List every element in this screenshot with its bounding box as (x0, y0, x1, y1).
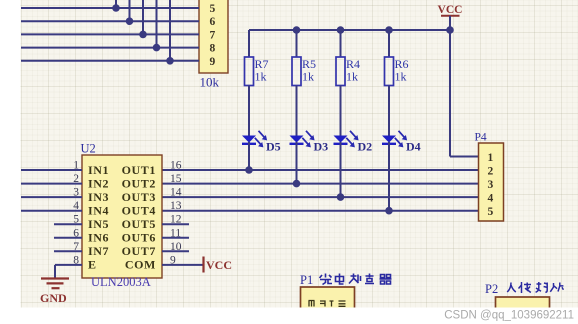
svg-text:OUT5: OUT5 (122, 217, 156, 231)
svg-text:1k: 1k (346, 70, 358, 84)
wire OUT1 to P4 pin2 (162, 169, 479, 171)
wire OUT2 to P4 pin3 (162, 183, 479, 185)
svg-text:1: 1 (488, 152, 494, 164)
junction bus-R4 (337, 26, 345, 34)
svg-text:13: 13 (170, 200, 182, 212)
svg-text:8: 8 (210, 43, 216, 55)
junction D2-OUT3 (337, 193, 345, 201)
svg-text:D2: D2 (358, 140, 373, 154)
svg-text:P1: P1 (300, 273, 313, 287)
svg-text:U2: U2 (81, 142, 96, 156)
svg-text:1k: 1k (395, 70, 407, 84)
wire U2 pin12 stub (162, 223, 189, 225)
svg-text:E: E (88, 258, 97, 272)
svg-text:OUT7: OUT7 (122, 244, 156, 258)
svg-text:OUT6: OUT6 (122, 231, 156, 245)
label P2 (485, 282, 498, 296)
svg-text:VCC: VCC (438, 4, 463, 16)
svg-text:COM: COM (125, 258, 156, 272)
bottom margin mask (0, 308, 578, 324)
label P4 (475, 132, 487, 144)
resistor R6 1k (385, 30, 409, 136)
svg-text:VCC: VCC (206, 258, 232, 272)
label P1 (300, 273, 313, 287)
svg-text:7: 7 (210, 29, 216, 41)
power VCC pin9 (204, 257, 233, 273)
svg-text:GND: GND (40, 291, 67, 305)
junction bus-R6 (385, 26, 393, 34)
left margin mask (0, 0, 21, 324)
watermark CSDN (444, 310, 574, 322)
connector P2 box (496, 297, 550, 311)
wire riser 1 (115, 0, 117, 8)
junction dot 2 (126, 17, 134, 25)
wire VCC bus (249, 29, 450, 31)
wire U2 pin10 stub (162, 250, 189, 252)
U2 pin names right (122, 163, 156, 272)
svg-text:IN4: IN4 (88, 204, 109, 218)
svg-text:IN6: IN6 (88, 231, 109, 245)
U2 pin numbers right (170, 160, 182, 267)
junction dot 5 (166, 57, 174, 65)
svg-text:OUT1: OUT1 (122, 163, 156, 177)
label 光电传感器 (320, 274, 392, 285)
svg-text:IN3: IN3 (88, 190, 109, 204)
svg-text:15: 15 (170, 173, 182, 185)
svg-text:IN5: IN5 (88, 217, 109, 231)
junction dot 1 (112, 4, 120, 12)
wire riser 3 (142, 0, 144, 34)
svg-text:3: 3 (488, 179, 494, 191)
U2 pin names left (88, 163, 109, 272)
svg-text:OUT2: OUT2 (122, 176, 156, 190)
U2 pin numbers left (73, 160, 79, 267)
svg-text:10k: 10k (200, 75, 220, 90)
resistor network RN1 (10k) (199, 0, 228, 73)
resistor R5 1k (292, 30, 316, 136)
wire RN pin5 (21, 7, 199, 9)
svg-text:CSDN @qq_1039692211: CSDN @qq_1039692211 (444, 310, 574, 322)
label ULN2003A (91, 275, 151, 289)
wire U2 pin1 (21, 169, 82, 171)
wire U2 pin2 (21, 183, 82, 185)
junction D4-OUT4 (385, 207, 393, 215)
junction D5-OUT1 (245, 166, 253, 174)
wire RN pin8 (21, 47, 199, 49)
label 人体红外 (507, 282, 563, 293)
connector P1 box (301, 287, 355, 311)
svg-text:D4: D4 (406, 140, 421, 154)
wire OUT3 to P4 pin4 (162, 196, 479, 198)
junction dot 3 (139, 31, 147, 39)
wire riser 4 (156, 0, 158, 48)
wire RN pin9 (21, 60, 199, 62)
resistor R4 1k (336, 30, 360, 136)
wire U2 pin8 (55, 265, 82, 279)
junction dot 4 (153, 44, 161, 52)
wire riser 5 (169, 0, 171, 61)
svg-text:4: 4 (488, 193, 494, 205)
op-amp U2 box (82, 155, 162, 278)
LED D3 (290, 131, 329, 184)
LED D2 (334, 131, 373, 197)
label 10k (200, 75, 220, 90)
svg-text:P4: P4 (475, 132, 487, 144)
wire U2 pin7 (54, 250, 82, 252)
svg-text:9: 9 (210, 56, 216, 68)
wire VCC to P4 pin1 (450, 30, 479, 157)
svg-text:ULN2003A: ULN2003A (91, 275, 151, 289)
svg-text:5: 5 (488, 206, 494, 218)
svg-text:16: 16 (170, 160, 182, 172)
label U2 (81, 142, 96, 156)
svg-text:D5: D5 (266, 140, 281, 154)
junction D3-OUT2 (293, 180, 301, 188)
svg-text:OUT3: OUT3 (122, 190, 156, 204)
svg-text:IN2: IN2 (88, 176, 109, 190)
resistor R7 1k (245, 30, 269, 136)
junction bus-R5 (293, 26, 301, 34)
wire RN pin7 (21, 33, 199, 35)
svg-text:IN7: IN7 (88, 244, 109, 258)
wire U2 pin9 (162, 264, 203, 266)
svg-text:OUT4: OUT4 (122, 204, 156, 218)
wire riser 2 (129, 0, 131, 21)
svg-text:D3: D3 (314, 140, 329, 154)
wire U2 pin3 (21, 196, 82, 198)
svg-text:2: 2 (488, 166, 494, 178)
wire U2 pin4 (21, 210, 82, 212)
power VCC top (438, 4, 463, 30)
svg-text:1k: 1k (255, 70, 267, 84)
wire U2 pin11 stub (162, 237, 189, 239)
svg-text:P2: P2 (485, 282, 498, 296)
wire U2 pin5 (54, 223, 82, 225)
svg-text:5: 5 (210, 3, 216, 15)
LED D4 (382, 131, 421, 211)
svg-text:IN1: IN1 (88, 163, 109, 177)
wire U2 pin6 (54, 237, 82, 239)
svg-text:1k: 1k (302, 70, 314, 84)
connector P4 (479, 143, 504, 221)
LED D5 (242, 131, 281, 170)
svg-text:6: 6 (210, 16, 216, 28)
ground GND (40, 279, 69, 306)
svg-text:14: 14 (170, 187, 182, 199)
wire RN pin6 (21, 20, 199, 22)
junction bus-VCC (446, 26, 454, 34)
wire OUT4 to P4 pin5 (162, 210, 479, 212)
